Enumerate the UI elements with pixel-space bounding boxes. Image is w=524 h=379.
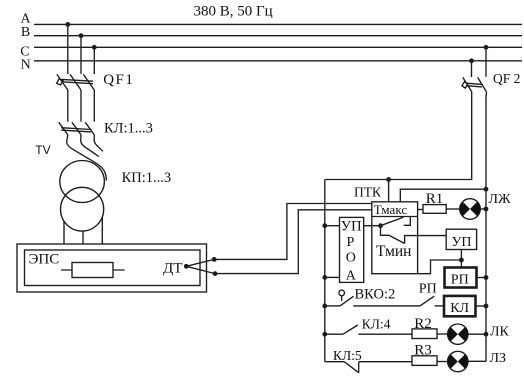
svg-text:УП: УП [341,219,362,235]
PTK Tmax divider [372,216,418,218]
wire left rail to UPROA bottom [325,276,340,278]
wire QF1 to KL pole 3 [93,90,95,122]
node left rail VKO row [322,304,327,309]
resistor R1 [423,205,446,214]
svg-text:ДТ: ДТ [163,261,182,277]
svg-text:R2: R2 [414,316,432,332]
wire KL pole2 to transformer [81,135,99,157]
node left rail KL4 row [322,332,327,337]
wire QF1 to KL pole 1 [67,90,69,122]
bus B [34,35,522,37]
bus A [34,23,522,25]
contact RP blade [420,296,434,306]
node C tap QF2 [484,45,489,50]
wire RP contact to KL box [435,305,444,307]
contactor KL:1...3 pole 3 blade [85,122,94,135]
wire rail to KL4 [325,333,343,335]
wire lamp LZ to rail corner [468,360,486,362]
PTK Tmin contact blade [381,226,405,244]
wire rail to VKO contact [325,305,340,307]
node rail at KL [484,304,489,309]
wire left rail [324,180,326,362]
svg-text:QF 2: QF 2 [493,71,520,86]
breaker QF1 tie bar [62,79,94,83]
EPS box inner [25,250,201,286]
wire lamp LZh to rail [480,208,486,210]
node C tap QF1 [92,45,97,50]
wire rail corner to KL5 [325,361,344,363]
node UP RP junction [459,258,464,263]
contact KL:5 blade [344,362,359,373]
svg-text:КЛ: КЛ [450,301,469,316]
svg-text:ЛК: ЛК [490,325,509,340]
node N tap QF2 [469,58,474,63]
relay KL box [444,296,476,316]
wire W2 to Tmax [400,189,486,202]
breaker QF1 latch rhombus [57,79,64,85]
wire RP to rail [477,277,487,279]
wire KL pole3 to transformer [94,135,103,152]
node PTK supply tap [386,177,391,182]
contactor KL:1...3 pole 2 blade [72,122,81,135]
wire left rail to UPROA top [325,225,340,227]
wire KL5 to R3 [359,361,412,363]
svg-text:КЛ:5: КЛ:5 [333,348,362,363]
breaker QF1 pole 2 blade [70,74,81,90]
relay RP box [445,268,477,288]
svg-text:R1: R1 [426,191,444,207]
wire C to QF2 [485,47,487,77]
limit switch VKO:2 blade [340,296,354,306]
node left rail to UPROA top [322,223,327,228]
node A tap QF1 [65,22,70,27]
wire R1 to lamp LZh [446,208,459,210]
wire DT upper to Tmax box [214,204,372,260]
wire secondary phase 2 [82,231,84,244]
node left rail to UPROA bottom [322,275,327,280]
breaker QF2 tie bar [466,83,482,87]
wire lamp LK to rail [468,333,486,335]
lamp LZh [460,199,481,220]
wire right rail [485,92,487,362]
node rail at LZh [484,207,489,212]
svg-text:О: О [346,251,356,266]
wire UP down to node [460,250,462,268]
contactor KL:1...3 tie bar [61,128,91,132]
svg-text:Тмин: Тмин [376,243,411,260]
wire DT fan upper [186,259,214,266]
wire N to QF2 [471,61,473,77]
PTK Tmin fixed contact [405,236,418,244]
breaker QF2 latch rhombus [462,82,468,88]
contact KL:4 blade [343,325,358,334]
PTK block box [372,202,418,274]
node right rail W2 tap [484,187,489,192]
svg-text:РП: РП [451,273,469,288]
svg-text:УП: УП [452,235,472,250]
breaker QF1 pole 1 blade [57,74,68,90]
contact KL:5 fixed stub [358,362,360,373]
bus N [34,60,522,62]
node rail at LK [484,332,489,337]
svg-text:А: А [346,268,357,283]
wire QF2 pole1 down [325,92,472,180]
wire VKO to RP contact [353,305,420,307]
wire R2 to lamp LK [437,333,448,335]
EPS box outer [17,244,207,292]
svg-text:380 В, 50 Гц: 380 В, 50 Гц [194,4,273,20]
svg-text:Р: Р [347,235,355,250]
limit switch VKO:2 stem [341,296,343,301]
lamp LZ [448,351,468,371]
svg-text:ЭПС: ЭПС [29,252,60,268]
svg-text:КЛ:1...3: КЛ:1...3 [104,121,153,137]
breaker QF2 pole 2 blade [478,77,487,91]
wire R3 to lamp LZ [437,361,448,363]
node DT fan point [184,264,189,269]
svg-text:B: B [21,25,30,40]
wire KL pole1 to transformer [67,135,107,181]
contactor KL:1...3 pole 1 blade [59,122,68,135]
resistor leads [61,269,125,271]
UPROA box [340,217,364,282]
node DT out upper [212,257,217,262]
transformer TV primary winding [60,161,105,203]
svg-text:A: A [21,11,32,26]
wire secondary phase 3 [101,218,103,245]
svg-text:РП: РП [419,282,437,297]
svg-text:ЛЗ: ЛЗ [490,351,507,366]
svg-text:ВКО:2: ВКО:2 [355,287,396,303]
resistor R2 [412,329,437,339]
bus C [34,46,522,48]
relay UP box [446,229,476,249]
svg-text:ЛЖ: ЛЖ [489,192,511,207]
wire PTK to UP box [418,235,447,237]
node rail at RP [484,275,489,280]
wire Tmax to R1 [418,209,423,211]
wire secondary phase 1 [63,221,65,244]
wire UPROA to PTK contact [364,225,381,227]
wire C to QF1 [93,47,95,74]
svg-text:ПТК: ПТК [354,185,382,200]
svg-text:QF1: QF1 [103,72,134,88]
svg-text:TV: TV [35,143,50,157]
resistor in EPS [72,263,113,278]
node DT out lower [213,271,218,276]
wire DT fan lower [186,266,215,273]
limit switch VKO:2 actuator circle [339,290,345,296]
wire PTK supply drop [388,180,390,202]
wire A to QF1 [67,24,69,74]
wire KL4 to R2 [358,333,412,335]
svg-text:КП:1...3: КП:1...3 [122,170,172,186]
resistor R3 [412,356,437,366]
node B tap QF1 [79,33,84,38]
PTK Tmax contact blade [381,217,404,226]
PTK Tmax fixed contact [404,217,411,226]
node PTK contact pivot [378,223,383,228]
transformer TV secondary winding [61,187,104,231]
wire KL to rail [476,305,487,307]
svg-text:КЛ:4: КЛ:4 [362,317,391,332]
svg-text:R3: R3 [414,343,432,359]
wire DT lower to Tmax box [215,210,372,274]
wire PTK bottom to relay node [418,260,462,274]
breaker QF1 pole 3 blade [83,74,94,90]
breaker QF2 pole 1 blade [463,77,472,91]
svg-text:Тмакс: Тмакс [374,202,408,217]
wire B to QF1 [80,36,82,74]
lamp LK [448,324,468,344]
wire QF1 to KL pole 2 [80,90,82,122]
svg-text:N: N [21,58,31,73]
